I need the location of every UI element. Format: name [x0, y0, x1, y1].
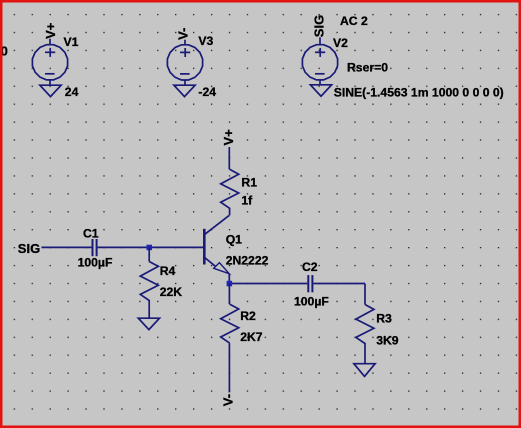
ground under V1 — [40, 85, 61, 96]
svg-text:V+: V+ — [43, 22, 58, 39]
wire V2 bottom to ground — [319, 80, 321, 85]
voltage source V2 — [302, 45, 337, 80]
wire node B down to R4 — [148, 247, 150, 261]
resistor R2 — [221, 304, 239, 343]
svg-text:R2: R2 — [240, 309, 256, 323]
svg-text:3K9: 3K9 — [376, 334, 399, 348]
svg-text:SINE(-1.4563 1m 1000 0 0 0 0): SINE(-1.4563 1m 1000 0 0 0 0) — [334, 85, 504, 99]
svg-text:V2: V2 — [333, 36, 348, 50]
svg-text:AC 2: AC 2 — [340, 14, 368, 28]
svg-text:V-: V- — [176, 28, 191, 40]
svg-text:R4: R4 — [160, 264, 176, 278]
svg-text:Rser=0: Rser=0 — [347, 61, 388, 75]
svg-text:V1: V1 — [64, 35, 79, 49]
ground under V3 — [174, 85, 195, 96]
wire V1 top pin — [49, 39, 51, 45]
wire V3 top pin — [184, 40, 186, 45]
resistor R1 — [221, 169, 239, 215]
resistor R3 — [356, 305, 374, 364]
svg-text:R3: R3 — [376, 312, 392, 326]
svg-text:-24: -24 — [198, 85, 216, 99]
svg-text:V+: V+ — [221, 129, 236, 146]
wire corner down to R3 — [364, 284, 366, 305]
ground under R3 — [354, 364, 375, 377]
wire V2 top pin — [319, 37, 321, 44]
svg-text:24: 24 — [65, 85, 79, 99]
svg-text:C1: C1 — [83, 227, 99, 241]
svg-text:2K7: 2K7 — [240, 330, 263, 344]
svg-text:22K: 22K — [160, 285, 183, 299]
wire SIG flag to C1 — [42, 246, 92, 248]
ground under V2 — [310, 85, 331, 96]
svg-text:SIG: SIG — [311, 15, 326, 37]
wire R2 to V- flag — [228, 343, 230, 392]
ground under R4 — [138, 318, 159, 329]
wire node E to C2 — [229, 283, 307, 285]
voltage source V3 — [167, 45, 202, 80]
node E junction — [227, 281, 233, 287]
capacitor C2 — [308, 275, 312, 292]
svg-text:Q1: Q1 — [226, 233, 242, 247]
svg-text:SIG: SIG — [18, 241, 40, 256]
voltage source V1 — [32, 45, 67, 80]
wire C1 to base node B — [98, 246, 205, 248]
svg-text:R1: R1 — [241, 176, 257, 190]
wire V+ flag to R1 — [228, 147, 230, 169]
transistor Q1 — [204, 215, 229, 273]
node B junction — [147, 245, 153, 251]
svg-text:100µF: 100µF — [294, 294, 329, 308]
svg-text:2N2222: 2N2222 — [226, 253, 269, 267]
capacitor C1 — [93, 239, 97, 256]
wire V1 bottom to ground — [49, 80, 51, 85]
svg-text:1f: 1f — [241, 194, 253, 208]
svg-text:100µF: 100µF — [78, 256, 113, 270]
wire node E down to R2 — [228, 284, 230, 305]
wire Q1 emitter to node E — [228, 274, 230, 284]
svg-text:V-: V- — [221, 394, 236, 406]
resistor R4 — [140, 262, 158, 319]
svg-text:C2: C2 — [302, 260, 318, 274]
svg-text:V3: V3 — [198, 34, 213, 48]
wire C2 to corner — [313, 283, 365, 285]
wire V3 bottom to ground — [184, 80, 186, 85]
